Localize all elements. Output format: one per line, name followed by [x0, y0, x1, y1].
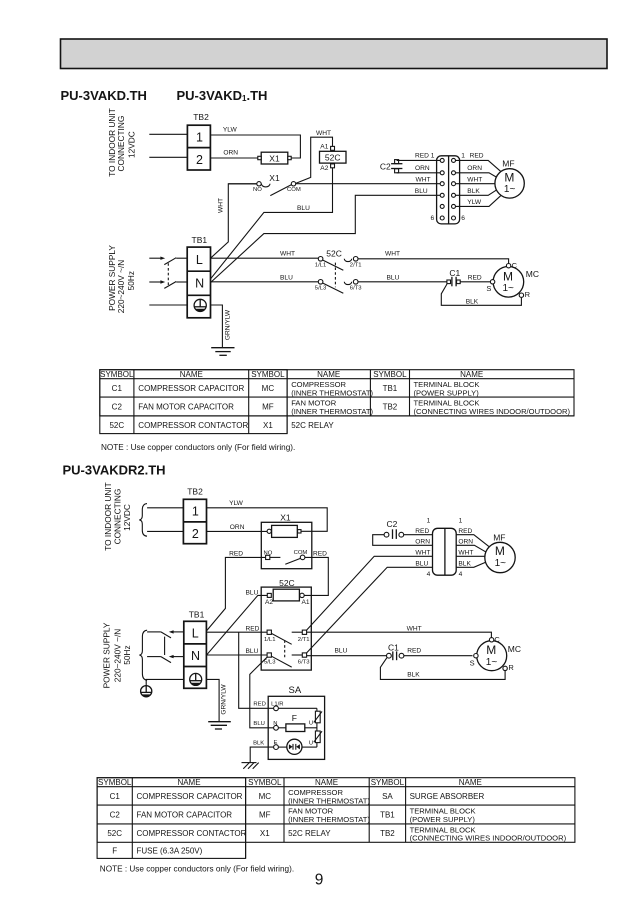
label POWER SUPPLY 220-240V 50Hz (diagram 2) — [102, 622, 133, 688]
svg-text:COMPRESSOR CAPACITOR: COMPRESSOR CAPACITOR — [138, 384, 244, 393]
svg-text:WHT: WHT — [280, 251, 295, 258]
svg-text:N: N — [191, 649, 200, 663]
svg-text:SA: SA — [382, 792, 393, 801]
svg-text:C: C — [512, 261, 518, 270]
svg-text:F: F — [112, 847, 117, 856]
SA internal right vertical — [316, 708, 318, 747]
svg-text:(INNER THERMOSTAT): (INNER THERMOSTAT) — [288, 815, 370, 824]
svg-text:52C: 52C — [325, 152, 341, 162]
connector CN (diagram 1) — [437, 156, 460, 224]
svg-text:L: L — [196, 253, 203, 267]
svg-text:TB2: TB2 — [380, 829, 395, 838]
svg-text:50Hz: 50Hz — [122, 645, 132, 664]
svg-text:TB2: TB2 — [193, 112, 209, 122]
svg-text:TB1: TB1 — [189, 610, 205, 620]
svg-text:ORN: ORN — [415, 165, 430, 172]
contactor coil 52C (diagram 2) — [273, 589, 299, 601]
svg-text:N: N — [273, 721, 277, 727]
svg-text:R: R — [525, 290, 531, 299]
svg-text:BLK: BLK — [466, 299, 479, 306]
ground SA (diagram 2) — [242, 763, 259, 769]
wire BLU 5/L3 to SA N — [250, 657, 274, 728]
supply line N with arrow and switch blade — [149, 281, 162, 283]
svg-text:ORN: ORN — [467, 165, 482, 172]
svg-text:(POWER SUPPLY): (POWER SUPPLY) — [410, 815, 476, 824]
svg-text:1~: 1~ — [495, 558, 507, 569]
wire ORN connector to MF — [456, 173, 497, 177]
svg-text:(INNER THERMOSTAT): (INNER THERMOSTAT) — [291, 388, 373, 397]
svg-text:YLW: YLW — [229, 500, 244, 507]
svg-text:F: F — [292, 713, 297, 723]
svg-text:MF: MF — [262, 403, 274, 412]
supply earth symbol (diagram 2) — [141, 686, 152, 698]
svg-text:X1: X1 — [269, 173, 280, 183]
SA internal L1/R row wire — [278, 707, 317, 709]
svg-text:TB1: TB1 — [380, 811, 395, 820]
svg-text:52C: 52C — [326, 249, 342, 259]
svg-text:RED: RED — [229, 551, 243, 558]
svg-text:NAME: NAME — [177, 778, 200, 787]
svg-text:RED: RED — [313, 550, 327, 557]
svg-text:MF: MF — [259, 811, 271, 820]
svg-text:BLK: BLK — [467, 188, 480, 195]
brace TB1 (diagram 2) — [139, 630, 147, 680]
svg-text:C1: C1 — [110, 792, 121, 801]
svg-text:YLW: YLW — [223, 127, 238, 134]
svg-text:TB1: TB1 — [192, 235, 208, 245]
svg-text:X1: X1 — [280, 512, 291, 522]
svg-text:ORN: ORN — [230, 524, 245, 531]
svg-text:WHT: WHT — [415, 549, 430, 556]
wire RED connector to MF — [456, 160, 501, 171]
svg-text:U: U — [309, 740, 313, 746]
svg-text:BLK: BLK — [253, 740, 264, 746]
svg-text:9: 9 — [315, 872, 324, 889]
wire BLK connector to MF — [456, 190, 497, 195]
svg-text:SURGE ABSORBER: SURGE ABSORBER — [410, 792, 485, 801]
svg-text:MF: MF — [493, 533, 505, 543]
svg-text:MC: MC — [508, 644, 521, 654]
svg-text:COMPRESSOR CAPACITOR: COMPRESSOR CAPACITOR — [137, 792, 243, 801]
svg-text:1: 1 — [459, 518, 463, 525]
supply earth line — [149, 304, 187, 306]
switch link (dashed) — [167, 263, 169, 285]
svg-text:NAME: NAME — [459, 778, 482, 787]
svg-text:A1: A1 — [302, 599, 310, 606]
svg-text:PU-3VAKD1.TH: PU-3VAKD1.TH — [177, 88, 268, 103]
svg-text:52C RELAY: 52C RELAY — [291, 421, 334, 430]
svg-text:M: M — [495, 544, 505, 558]
wire RED TB1-L to SA L1/R — [239, 632, 274, 708]
svg-text:X1: X1 — [260, 829, 270, 838]
svg-text:BLU: BLU — [415, 188, 428, 195]
relay contact X1 NO/COM (diagram 2) — [266, 555, 270, 559]
svg-text:YLW: YLW — [467, 199, 482, 206]
svg-text:1: 1 — [461, 153, 465, 160]
svg-text:A2: A2 — [320, 165, 328, 172]
svg-text:MF: MF — [502, 159, 514, 169]
svg-text:COM: COM — [294, 550, 308, 556]
contactor 52C contacts (diagram 2) — [267, 630, 271, 634]
svg-text:SA: SA — [289, 685, 302, 696]
svg-text:52C RELAY: 52C RELAY — [288, 829, 331, 838]
svg-text:6: 6 — [461, 215, 465, 222]
svg-text:SYMBOL: SYMBOL — [248, 778, 282, 787]
svg-text:RED: RED — [253, 702, 265, 708]
supply line N with blade and arrow (diagram 2) — [147, 656, 161, 658]
svg-text:(POWER SUPPLY): (POWER SUPPLY) — [414, 388, 480, 397]
svg-text:1/L1: 1/L1 — [315, 263, 326, 269]
wire TB2-1 stub — [149, 133, 187, 135]
svg-text:BLU: BLU — [335, 648, 348, 655]
svg-text:BLU: BLU — [246, 590, 259, 597]
svg-text:TB1: TB1 — [383, 384, 398, 393]
svg-text:SYMBOL: SYMBOL — [251, 370, 285, 379]
svg-text:M: M — [486, 643, 496, 657]
varistor U2 (diagram 2) — [315, 731, 320, 743]
brace TB2 (diagram 2) — [139, 504, 147, 537]
svg-text:4: 4 — [427, 571, 431, 578]
svg-text:SYMBOL: SYMBOL — [98, 778, 132, 787]
svg-text:POWER SUPPLY: POWER SUPPLY — [102, 622, 112, 688]
svg-text:52C: 52C — [109, 421, 124, 430]
svg-text:C1: C1 — [112, 384, 123, 393]
svg-text:L1/R: L1/R — [271, 702, 283, 708]
motor MC (diagram 2) — [477, 641, 507, 671]
svg-text:COMPRESSOR CONTACTOR: COMPRESSOR CONTACTOR — [137, 829, 247, 838]
svg-text:WHT: WHT — [407, 626, 422, 633]
svg-text:6/T3: 6/T3 — [298, 660, 311, 666]
svg-text:CONNECTING: CONNECTING — [116, 116, 126, 172]
svg-text:BLU: BLU — [415, 561, 428, 568]
svg-text:X1: X1 — [269, 153, 280, 163]
label TO INDOOR UNIT CONNECTING 12VDC (diagram 1) — [107, 108, 137, 177]
relay coil X1 (diagram 2) — [272, 525, 298, 537]
svg-text:1: 1 — [192, 504, 199, 518]
svg-text:FUSE (6.3A 250V): FUSE (6.3A 250V) — [137, 847, 203, 856]
svg-text:M: M — [504, 171, 514, 185]
svg-text:A1: A1 — [320, 144, 328, 151]
svg-text:6/T3: 6/T3 — [350, 286, 363, 292]
svg-text:C2: C2 — [112, 403, 123, 412]
svg-text:X1: X1 — [263, 421, 273, 430]
svg-text:5/L3: 5/L3 — [315, 286, 327, 292]
svg-text:NOTE : Use copper conductors: NOTE : Use copper conductors only (For f… — [100, 864, 294, 873]
svg-text:GRN/YLW: GRN/YLW — [225, 309, 232, 340]
svg-text:C1: C1 — [388, 643, 399, 653]
wire TB2-2 stub — [147, 530, 183, 532]
svg-text:TB2: TB2 — [383, 403, 398, 412]
svg-text:1: 1 — [196, 131, 203, 145]
svg-text:BLU: BLU — [387, 274, 400, 281]
svg-text:C2: C2 — [380, 161, 391, 171]
svg-text:NAME: NAME — [180, 370, 203, 379]
svg-text:MC: MC — [526, 269, 539, 279]
svg-text:FAN MOTOR CAPACITOR: FAN MOTOR CAPACITOR — [138, 403, 234, 412]
svg-text:220~240V ~/N: 220~240V ~/N — [113, 629, 123, 683]
svg-text:50Hz: 50Hz — [126, 271, 136, 290]
svg-text:RED: RED — [407, 648, 421, 655]
svg-text:RED: RED — [470, 153, 484, 160]
svg-text:2/T1: 2/T1 — [350, 263, 362, 269]
relay coil X1 (diagram 1) — [261, 152, 288, 164]
svg-text:BLU: BLU — [246, 648, 259, 655]
supply line L with arrow and switch blade — [149, 257, 162, 259]
svg-text:(INNER THERMOSTAT): (INNER THERMOSTAT) — [291, 407, 373, 416]
wire ORN connector to MF (diagram 2) — [456, 545, 485, 552]
svg-text:NAME: NAME — [460, 370, 483, 379]
svg-text:(CONNECTING WIRES INDOOR/OUTDO: (CONNECTING WIRES INDOOR/OUTDOOR) — [410, 834, 567, 843]
svg-text:COM: COM — [287, 187, 301, 193]
svg-text:1~: 1~ — [504, 184, 516, 195]
svg-text:FAN MOTOR CAPACITOR: FAN MOTOR CAPACITOR — [137, 811, 233, 820]
svg-text:NO: NO — [264, 550, 273, 556]
svg-text:WHT: WHT — [316, 130, 331, 137]
wire BLK SA E to ground — [250, 747, 273, 763]
svg-text:1/L1: 1/L1 — [264, 637, 275, 643]
wire WHT connector to MF — [456, 183, 495, 185]
ground (diagram 1) — [211, 348, 234, 356]
svg-text:MC: MC — [262, 384, 275, 393]
svg-text:WHT: WHT — [416, 176, 431, 183]
svg-text:C1: C1 — [449, 268, 460, 278]
svg-text:U: U — [309, 721, 313, 727]
wire YLW connector to MF — [456, 196, 501, 207]
svg-text:L: L — [192, 626, 199, 640]
svg-text:C: C — [494, 635, 500, 644]
svg-text:E: E — [274, 740, 278, 746]
svg-text:WHT: WHT — [458, 549, 473, 556]
svg-text:PU-3VAKD.TH: PU-3VAKD.TH — [61, 88, 147, 103]
svg-text:RED: RED — [468, 274, 482, 281]
wire TB2-2 stub — [149, 156, 187, 158]
wire WHT connector to MF (diagram 2) — [456, 555, 485, 557]
TB1 earth terminal symbol — [194, 299, 206, 312]
svg-text:S: S — [470, 658, 475, 667]
svg-text:WHT: WHT — [218, 198, 225, 213]
svg-text:BLK: BLK — [407, 672, 420, 679]
svg-text:5/L3: 5/L3 — [264, 660, 276, 666]
svg-text:BLU: BLU — [297, 205, 310, 212]
svg-text:2: 2 — [196, 153, 203, 167]
svg-text:SYMBOL: SYMBOL — [371, 778, 405, 787]
svg-text:12VDC: 12VDC — [127, 131, 137, 158]
svg-text:BLK: BLK — [458, 561, 471, 568]
svg-text:ORN: ORN — [458, 539, 473, 546]
svg-text:COMPRESSOR CONTACTOR: COMPRESSOR CONTACTOR — [138, 421, 248, 430]
svg-text:2/T1: 2/T1 — [298, 637, 310, 643]
svg-text:SYMBOL: SYMBOL — [100, 370, 134, 379]
svg-text:52C: 52C — [107, 829, 122, 838]
wire BLK connector to MF (diagram 2) — [456, 562, 485, 567]
svg-text:WHT: WHT — [467, 176, 482, 183]
svg-text:A2: A2 — [265, 599, 273, 606]
svg-text:GRN/YLW: GRN/YLW — [221, 684, 228, 715]
label POWER SUPPLY 220-240V 50Hz (diagram 1) — [107, 245, 136, 314]
svg-text:RED 1: RED 1 — [415, 153, 435, 160]
svg-text:RED: RED — [458, 528, 472, 535]
svg-text:M: M — [503, 269, 513, 283]
wire TB2-1 stub — [147, 507, 183, 509]
svg-text:6: 6 — [431, 215, 435, 222]
svg-text:NO: NO — [253, 187, 262, 193]
svg-text:RED: RED — [246, 625, 260, 632]
svg-text:C2: C2 — [110, 811, 121, 820]
svg-text:RED: RED — [415, 528, 429, 535]
svg-text:SYMBOL: SYMBOL — [373, 370, 407, 379]
svg-text:NAME: NAME — [315, 778, 338, 787]
svg-text:12VDC: 12VDC — [122, 504, 132, 531]
svg-text:2: 2 — [192, 527, 199, 541]
svg-text:C2: C2 — [387, 519, 398, 529]
supply line L with blade and arrow (diagram 2) — [147, 631, 161, 633]
svg-text:TB2: TB2 — [187, 486, 203, 496]
wire RED connector to MF (diagram 2) — [456, 535, 489, 547]
switch link (diagram 2) — [164, 637, 166, 655]
motor MC (diagram 1) — [493, 267, 524, 298]
label TO INDOOR UNIT CONNECTING 12VDC (diagram 2) — [103, 482, 132, 551]
svg-text:NOTE : Use copper conductors: NOTE : Use copper conductors only (For f… — [101, 443, 295, 452]
svg-text:WHT: WHT — [385, 251, 400, 258]
connector CN (diagram 2) — [433, 528, 457, 575]
svg-text:BLU: BLU — [280, 274, 293, 281]
svg-text:1~: 1~ — [486, 657, 498, 668]
svg-text:4: 4 — [459, 571, 463, 578]
svg-text:BLU: BLU — [253, 721, 264, 727]
svg-text:N: N — [195, 277, 204, 291]
svg-text:(CONNECTING WIRES INDOOR/OUTDO: (CONNECTING WIRES INDOOR/OUTDOOR) — [414, 407, 571, 416]
svg-text:1~: 1~ — [502, 283, 514, 294]
svg-text:S: S — [486, 284, 491, 293]
svg-text:ORN: ORN — [223, 150, 238, 157]
svg-text:MC: MC — [259, 792, 272, 801]
svg-text:PU-3VAKDR2.TH: PU-3VAKDR2.TH — [63, 463, 166, 478]
svg-text:NAME: NAME — [317, 370, 340, 379]
svg-text:1: 1 — [427, 518, 431, 525]
header bar — [61, 39, 608, 69]
arrester tube (diagram 2) — [287, 739, 302, 754]
svg-text:220~240V ~/N: 220~240V ~/N — [116, 260, 126, 314]
TB1 earth terminal symbol (diagram 2) — [190, 673, 202, 685]
svg-text:(INNER THERMOSTAT): (INNER THERMOSTAT) — [288, 796, 370, 805]
ground (diagram 2) — [208, 722, 231, 729]
svg-text:ORN: ORN — [415, 539, 430, 546]
varistor U1 (diagram 2) — [315, 711, 320, 723]
svg-text:TO INDOOR UNIT: TO INDOOR UNIT — [103, 482, 113, 551]
svg-text:R: R — [508, 663, 514, 672]
